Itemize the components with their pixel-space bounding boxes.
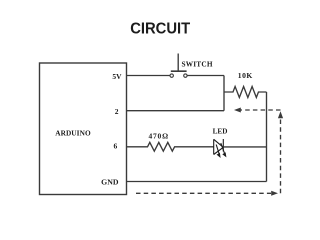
wire LED to right rail — [223, 146, 266, 148]
LED D1 emission arrowheads — [217, 153, 221, 158]
wire 5V pin to switch — [127, 75, 171, 77]
svg-text:CIRCUIT: CIRCUIT — [130, 21, 190, 38]
wire pin 2 row back to arduino — [127, 110, 225, 112]
arduino box U1 — [40, 63, 127, 195]
svg-text:SWITCH: SWITCH — [182, 59, 213, 68]
wire GND row — [127, 181, 267, 183]
svg-text:5V: 5V — [112, 72, 122, 81]
resistor R2 470 — [127, 142, 214, 151]
svg-text:2: 2 — [115, 107, 119, 116]
LED D1 symbol — [214, 139, 225, 155]
resistor R1 10K — [224, 87, 267, 98]
svg-text:10K: 10K — [238, 71, 253, 80]
wire right rail down — [266, 92, 268, 182]
wire switch to node corner — [187, 75, 224, 77]
dashed arrow bottom (points right) — [136, 192, 271, 194]
switch S1 terminal circle left — [170, 74, 173, 77]
svg-text:LED: LED — [213, 127, 228, 135]
dashed arrow vertical (points up) — [280, 118, 282, 193]
svg-text:ARDUINO: ARDUINO — [55, 128, 91, 137]
switch S1 stem — [177, 54, 179, 72]
svg-text:6: 6 — [113, 142, 117, 151]
svg-text:470Ω: 470Ω — [148, 131, 168, 140]
svg-text:GND: GND — [101, 178, 119, 187]
switch S1 terminal circle right — [184, 74, 187, 77]
wire node down to pin 2 row — [223, 76, 225, 111]
switch S1 bar — [171, 70, 187, 72]
dashed arrow top (points left into node) — [241, 109, 281, 111]
